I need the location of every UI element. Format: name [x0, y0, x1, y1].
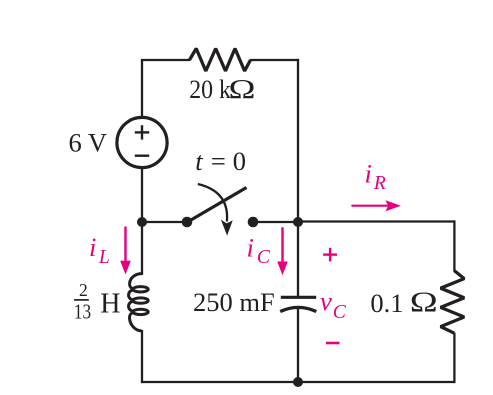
svg-text:iC: iC	[247, 232, 271, 268]
wire from V1 bottom to node A	[141, 168, 143, 223]
svg-text:250 mF: 250 mF	[193, 287, 275, 317]
fraction bar	[74, 299, 89, 301]
inductor L1 loop 2	[133, 298, 148, 303]
wire node A down to inductor	[141, 222, 143, 275]
svg-text:20 k: 20 k	[189, 76, 231, 104]
svg-text:iR: iR	[365, 159, 386, 195]
inductor L1 top hook	[130, 274, 142, 290]
switch SW1 blade (open)	[188, 188, 247, 223]
svg-text:6 V: 6 V	[69, 128, 108, 158]
wire middle vertical from top to capacitor	[297, 59, 299, 297]
svg-text:2: 2	[79, 280, 88, 300]
node B dot	[293, 217, 303, 227]
capacitor C1 top plate	[281, 296, 316, 299]
node C dot	[293, 377, 303, 387]
wire right vertical above R2	[453, 220, 455, 271]
wire right branch top horizontal	[297, 220, 455, 222]
wire top horizontal left of R1	[141, 59, 190, 61]
wire right vertical below R2	[453, 333, 455, 383]
switch closing arrow arc	[198, 184, 227, 222]
wire top-left vertical segment	[141, 60, 143, 116]
switch SW1 pivot dot	[182, 217, 193, 228]
wire switch contact to node B	[253, 221, 298, 223]
V1 minus sign	[135, 154, 149, 156]
svg-text:vC: vC	[320, 286, 347, 323]
current arrow iC	[281, 227, 283, 263]
svg-text:Ω: Ω	[410, 287, 438, 319]
resistor R2 0.1 Ohm zigzag	[441, 271, 465, 334]
wire node A to switch pivot	[142, 221, 187, 223]
inductor L1 loop 3	[133, 309, 148, 314]
wire left vertical below inductor	[141, 330, 143, 383]
switch right contact dot	[248, 217, 259, 228]
capacitor minus polarity	[326, 342, 340, 345]
inductor L1 bottom hook	[129, 312, 141, 331]
wire bottom horizontal	[141, 381, 455, 383]
inductor L1 arc 1-2	[129, 290, 134, 300]
inductor L1 loop 1	[133, 287, 148, 292]
V1 plus sign	[135, 131, 149, 133]
voltage source V1 circle	[117, 117, 167, 167]
svg-text:Ω: Ω	[229, 73, 256, 104]
node A dot	[137, 217, 147, 227]
resistor R1 20 kOhm zigzag	[190, 49, 251, 72]
current arrow iL	[124, 227, 126, 264]
svg-text:13: 13	[74, 301, 91, 324]
capacitor plus polarity	[323, 253, 337, 255]
wire capacitor bottom to node C	[297, 308, 299, 383]
svg-text:H: H	[100, 288, 120, 319]
svg-text:iL: iL	[89, 232, 110, 268]
current arrow iR	[351, 205, 388, 207]
wire top horizontal right of R1	[250, 59, 299, 61]
svg-text:0.1: 0.1	[370, 288, 403, 318]
inductor L1 arc 2-3	[129, 301, 134, 311]
svg-text:t = 0: t = 0	[195, 146, 247, 176]
switch closing arrowhead	[221, 220, 233, 236]
capacitor C1 bottom curved plate	[280, 307, 316, 311]
